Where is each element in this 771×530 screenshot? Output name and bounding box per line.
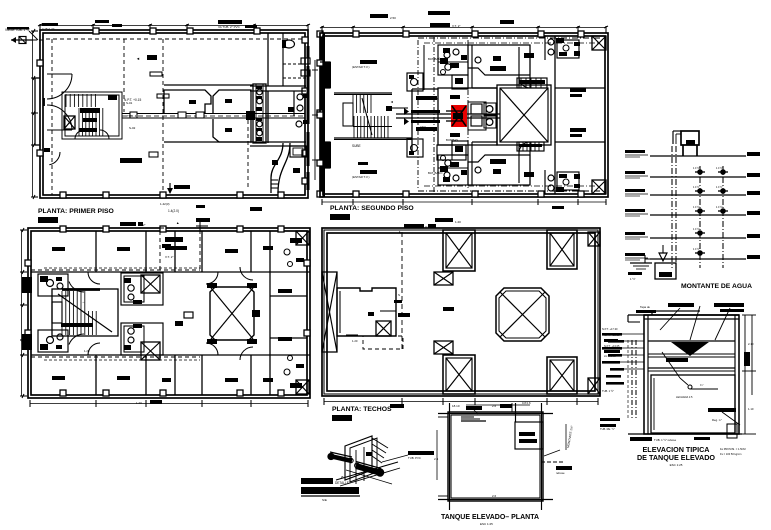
svg-text:B: B: [398, 300, 400, 304]
plan 4 vent xbox bottom-right: [547, 357, 577, 394]
plan 3 mid bath bottom block: [121, 323, 163, 355]
plan 1 right room labels: [288, 107, 294, 112]
svg-text:2.4: 2.4: [434, 457, 439, 461]
svg-text:◄: ◄: [390, 100, 393, 104]
plan 1 grid dashed verticals: [51, 39, 53, 195]
plan 3 top room partitions: [95, 231, 97, 272]
plan 4 small xbox lower: [434, 341, 453, 354]
plan 1 top dimension texts: [42, 23, 58, 26]
tank elevation inner leaders: [662, 352, 680, 378]
plan 4 top annotation: [404, 224, 424, 228]
svg-text:LECHADA 1:5: LECHADA 1:5: [676, 395, 693, 399]
svg-text:S-01: S-01: [126, 101, 133, 105]
svg-text:PLANTA: PRIMER PISO: PLANTA: PRIMER PISO: [38, 208, 114, 215]
plan 2 top-right wall and fixtures: [544, 36, 546, 60]
top-left valve symbol: [11, 39, 33, 41]
svg-text:0.25x1.20: 0.25x1.20: [42, 27, 55, 31]
svg-text:B: B: [436, 97, 438, 101]
plan 4 stair housing: [337, 288, 396, 336]
svg-text:1 1½": 1 1½": [716, 166, 723, 170]
plan 2 left wall black poché: [320, 33, 325, 197]
plan 2 corridor lines: [396, 113, 500, 115]
tank elevation water triangle: [671, 342, 709, 356]
plan 3 top room labels: [52, 247, 65, 251]
plan 1 stair block outline: [62, 92, 122, 139]
svg-text:DE TANQUE ELEVADO: DE TANQUE ELEVADO: [637, 453, 715, 462]
plan 2 corner xbox bottom-right: [592, 180, 606, 194]
plan 1 central rooms top wall: [164, 84, 253, 86]
svg-text:2.50: 2.50: [390, 16, 396, 20]
plan 2 bottom dim smudges: [435, 218, 453, 222]
svg-text:BOMBAS: BOMBAS: [446, 138, 458, 142]
plan 1 wall column markers: [93, 28, 99, 34]
svg-text:1.4(2.0): 1.4(2.0): [168, 209, 179, 213]
plan 3 left bath top cluster: [38, 274, 68, 296]
pump squares: [468, 102, 486, 130]
isometric caption line 1: [301, 478, 333, 484]
plan 1 misc annotations: [147, 55, 157, 60]
plan 1 bottom-right curved corridor wall: [271, 143, 283, 193]
tank plan inner room: [515, 422, 543, 449]
plan 3 bottom edge ticks: [29, 400, 31, 407]
plan 2 right rooms walls: [554, 36, 556, 194]
plan 3 right side bath smudges top: [290, 238, 302, 243]
plan 2 core dashed boundary: [417, 40, 419, 190]
plan 1 stair upper treads: [65, 94, 67, 107]
plan 4 stair housing dashed box: [363, 336, 403, 349]
plan 2 bottom-right wall and fixtures: [544, 170, 546, 194]
plan 2 long dashdot top and bottom: [418, 37, 600, 39]
svg-text:SUBE: SUBE: [352, 144, 361, 148]
plan 2 bottom rooms right of bath: [471, 142, 473, 185]
svg-text:1.10: 1.10: [748, 407, 754, 411]
plan 2 top-right bath: [557, 40, 579, 58]
isometric hatch top: [372, 438, 388, 448]
plan 3 stair door arcs: [69, 282, 84, 293]
svg-text:ESC 1:25: ESC 1:25: [480, 522, 493, 526]
plan 2 dash leader texts: [430, 23, 450, 27]
plan 1 top edge ticks: [39, 24, 41, 31]
plan1 right edge dimension line: [314, 60, 316, 180]
plan 3 bottom room partitions: [95, 355, 97, 395]
plan 4 small xbox upper: [434, 272, 453, 285]
plan 3 mid bath top xbox: [141, 275, 160, 293]
plan 3 left edge ticks: [20, 229, 27, 231]
svg-text:BAT. BAÑO: BAT. BAÑO: [428, 56, 443, 61]
plan 1 right wall sinks: [301, 58, 310, 64]
plan 2 stair lower flight: [353, 116, 355, 138]
plan 2 top rooms right of bath: [471, 45, 473, 88]
plan 4 corner xbox top-right: [588, 232, 600, 246]
plan 2 utility box left of bath bottom: [407, 139, 423, 157]
svg-text:1.20: 1.20: [352, 339, 358, 343]
tank elevation left labels: [602, 333, 622, 336]
plan 3 top rooms wall: [31, 271, 310, 273]
plan 2 stair upper flight: [352, 95, 354, 113]
svg-text:N.P.T. +17.30: N.P.T. +17.30: [602, 327, 618, 331]
riser floor left labels: [625, 150, 645, 153]
tank plan outer rect: [448, 412, 543, 501]
plan 2 elevator shaft xbox: [497, 85, 551, 145]
plan 3 right room labels: [278, 289, 292, 293]
plan 1 right zone partition walls: [267, 33, 269, 86]
plan 3 stair block: [52, 289, 118, 336]
plan 3 wall column markers: [60, 226, 66, 232]
plan 3 bottom annotation: [150, 400, 162, 404]
plan 3 stair top bold rail: [62, 288, 100, 291]
plan 2 pump room core walls: [438, 88, 497, 145]
plan 4 bottom edge ticks: [323, 398, 325, 405]
plan 3 patio xbox: [210, 287, 254, 340]
plan4 above smudge: [428, 224, 436, 228]
plan 1 top-right toilet: [284, 40, 295, 48]
plan 3 corner xbox top-right: [296, 231, 309, 245]
pump motor circles: [486, 106, 493, 113]
plan 4 outer parapet wall: [322, 228, 600, 396]
plan 2 top edge ticks: [321, 26, 323, 33]
plan 2 pipe leader dark dashes: [411, 110, 440, 113]
plan 3 right room door arcs: [240, 267, 253, 280]
plan 3 right side bath smudges bottom: [290, 383, 302, 388]
plan 4 vent xbox top-left: [443, 230, 475, 271]
svg-text:MONTANTE DE AGUA: MONTANTE DE AGUA: [681, 283, 752, 290]
plan 1 bottom-right closet: [290, 146, 306, 157]
plan 2 corner xbox top-right: [592, 36, 606, 50]
riser valves: [695, 171, 705, 173]
svg-text:1 1½": 1 1½": [693, 205, 700, 209]
svg-text:rebose: rebose: [556, 471, 565, 475]
plan 1 stair door arcs: [75, 130, 84, 139]
tank plan step hatch detail: [461, 420, 486, 422]
plan 2 outer wall: [320, 33, 608, 197]
riser inlet pipe: [645, 258, 672, 260]
plan 3 dashed duct zone top: [160, 228, 200, 272]
plan 4 central chamfered skylight: [496, 288, 549, 341]
riser vertical pipes dashdot: [671, 146, 673, 268]
svg-text:1 1½": 1 1½": [693, 185, 700, 189]
svg-text:Fe PROVISI. = 1.5CM: Fe PROVISI. = 1.5CM: [720, 447, 746, 451]
plan 1 corridor door squares: [178, 112, 186, 118]
plan3 above smudges: [138, 222, 143, 226]
svg-text:1.42(3): 1.42(3): [160, 202, 170, 206]
svg-text:18.10: 18.10: [452, 404, 460, 408]
isometric floor lines: [336, 462, 398, 480]
tank plan corner tick lines: [438, 413, 553, 415]
svg-text:1 1½": 1 1½": [716, 185, 723, 189]
svg-text:(ESTAR T.V.): (ESTAR T.V.): [352, 65, 369, 69]
svg-text:TUB. RE. ½": TUB. RE. ½": [600, 427, 615, 431]
plan 2 bottom bath cluster: [438, 155, 468, 185]
svg-text:2.10: 2.10: [748, 342, 754, 346]
plan 1 outer wall: [40, 30, 308, 198]
plan 4 vent xbox bottom-left: [443, 355, 475, 394]
plan 1 plumbing fixtures circles: [257, 89, 263, 95]
plan 2 room labels left: [360, 60, 377, 64]
svg-text:1.20: 1.20: [84, 349, 90, 353]
tank elevation top leaders: [660, 308, 680, 330]
svg-text:1 1½": 1 1½": [716, 205, 723, 209]
tank elevation left pipes dashdot: [631, 340, 633, 420]
plan 3 stair upper treads: [61, 291, 63, 311]
svg-text:BAT. BAÑO: BAT. BAÑO: [428, 170, 443, 175]
tank elevation lower box: [651, 375, 735, 433]
svg-text:DETALLE: DETALLE: [335, 481, 349, 485]
plan 3 mid bath top block: [121, 273, 163, 305]
plan 1 central room upper-left: [164, 90, 211, 113]
plan 1 central room upper-right: [213, 90, 251, 113]
plan 2 bottom-right bath: [557, 172, 579, 190]
svg-text:PLANTA: SEGUNDO PISO: PLANTA: SEGUNDO PISO: [330, 205, 414, 212]
plan 1 stair annotation NPT: [108, 95, 117, 100]
svg-text:1 ½": 1 ½": [630, 277, 636, 281]
svg-text:¾": ¾": [700, 383, 704, 387]
plan 4 corner xbox bottom-right: [588, 378, 600, 394]
svg-text:TUB. 1 ½" rebose: TUB. 1 ½" rebose: [654, 438, 677, 442]
isometric leader text right: [382, 455, 408, 462]
svg-text:ESC 1:25: ESC 1:25: [670, 463, 683, 467]
pump symbol over red: [452, 106, 466, 126]
plan 1 plumbing wall band: [253, 84, 266, 143]
svg-text:V.T. 2": V.T. 2": [165, 255, 173, 259]
tank elevation right niche: [708, 408, 736, 412]
plan 2 vent grill below shaft: [517, 142, 544, 151]
plan 4 center label dash: [443, 307, 454, 311]
tank elevation outer structure: [644, 315, 739, 434]
svg-text:TUB. 4": TUB. 4": [127, 114, 137, 118]
plan 3 stair diagonal rail: [58, 294, 112, 332]
plan 3 outer wall: [28, 228, 310, 398]
riser floor lines: [650, 155, 746, 157]
isometric wall panel: [345, 436, 372, 480]
plan 2 top vent grill: [517, 78, 547, 88]
svg-text:(ESTAR T.V.): (ESTAR T.V.): [352, 175, 369, 179]
riser branch risers: [699, 166, 701, 268]
riser cistern: [655, 263, 676, 279]
plan 2 rooms below core: [437, 145, 466, 160]
plan 2 top bath cluster: [438, 45, 468, 75]
plan 3 corner xbox bottom-right: [296, 380, 309, 394]
plan 1 stair dense core: [78, 108, 80, 136]
riser cistern funnel: [659, 253, 667, 261]
svg-text:1.20: 1.20: [136, 401, 142, 405]
plan2 above dimension smudges: [370, 14, 388, 18]
plan 3 stair lower treads: [61, 311, 63, 335]
plan 4 housing annotations: [380, 310, 396, 312]
isometric pipe lower: [356, 466, 381, 473]
plan 2 right room labels: [570, 88, 586, 92]
plan 3 interior door arcs: [88, 272, 100, 284]
plan 2 bottom edge ticks: [321, 199, 323, 205]
svg-text:→: →: [81, 299, 85, 304]
plan 2 wall column markers: [353, 31, 359, 37]
tank elevation bottom baseline: [628, 433, 742, 435]
tank elevation top-left slab step: [628, 314, 644, 316]
plan 3 top annotations: [120, 222, 136, 226]
svg-text:2.6: 2.6: [492, 494, 497, 498]
svg-text:TUB. PVC: TUB. PVC: [408, 456, 421, 460]
plan 1 top dashed service line: [46, 38, 305, 40]
plan 1 bottom-left door arc: [49, 152, 60, 165]
plan 1 bottom drain arrow: [169, 183, 171, 193]
plan 3 bottom room labels: [52, 376, 65, 380]
plan 4 stair housing inner xbox: [376, 321, 391, 336]
plan 1 central room lower: [213, 119, 251, 142]
isometric pipe upper: [330, 456, 352, 461]
svg-text:PLANTA: TECHOS: PLANTA: TECHOS: [332, 406, 392, 413]
plan 3 mid bath bottom xbox: [141, 342, 160, 360]
tank elevation right dimension lines: [744, 315, 746, 434]
plan 2 left wall recess top: [320, 62, 330, 88]
svg-text:◄: ◄: [136, 56, 140, 61]
svg-text:▲: ▲: [176, 221, 179, 225]
plan 1 right wall dark fill: [307, 46, 310, 58]
plan 3 upper mid-left dashed lines: [44, 267, 200, 269]
isometric caption line 2 underlined: [301, 487, 359, 494]
svg-text:1 1½": 1 1½": [693, 166, 700, 170]
svg-text:Fs = 100 50 kg/cm: Fs = 100 50 kg/cm: [720, 452, 741, 456]
plan 2 utility box left of bath top: [407, 73, 423, 91]
svg-text:S: S: [398, 293, 400, 297]
svg-text:TUB. 1 ½": TUB. 1 ½": [602, 389, 614, 393]
plan 4 vent xbox top-right: [547, 230, 577, 269]
plan 1 bottom-right stair marks: [271, 179, 278, 181]
tank elevation top slab: [644, 314, 739, 316]
pump room red highlight: [451, 105, 467, 127]
plan 1 left edge ticks: [31, 30, 38, 32]
svg-text:CTO.: CTO.: [420, 125, 427, 129]
svg-text:Reg. ¾": Reg. ¾": [712, 418, 722, 422]
plan 3 right rooms walls: [269, 231, 271, 395]
svg-text:2.6: 2.6: [492, 404, 497, 408]
plan 4 left xstrip: [322, 272, 337, 352]
svg-text:S/E: S/E: [322, 498, 327, 502]
plan 1 left entry recess and door arcs: [35, 77, 40, 79]
plan 4 bottom dim texts: [390, 404, 404, 408]
svg-text:1.20: 1.20: [455, 220, 461, 224]
plan 3 left bath bottom cluster: [38, 330, 68, 352]
svg-text:1 1½": 1 1½": [693, 227, 700, 231]
riser ground hatch: [630, 262, 652, 264]
plan 3 bottom rooms wall: [31, 354, 310, 356]
svg-text:TANQUE ELEVADO– PLANTA: TANQUE ELEVADO– PLANTA: [441, 514, 539, 521]
svg-text:S-02: S-02: [129, 126, 136, 130]
plan 1 corridor double line: [122, 113, 305, 115]
plan 2 stair walls: [334, 92, 392, 94]
plan 2 left wall recess bottom: [320, 142, 330, 168]
plan 4 grid dashed vertical: [401, 232, 403, 349]
plan 1 right zone inner wall: [282, 33, 284, 86]
riser top tank: [681, 131, 699, 145]
plan 3 center small annotations: [184, 312, 193, 318]
svg-text:Tapa de: Tapa de: [640, 305, 650, 309]
plan 2 stair break line: [362, 98, 372, 135]
plan 1 elevator xbox: [64, 116, 75, 129]
svg-text:1 1½": 1 1½": [693, 247, 700, 251]
plan 2 pipe leader texts: [416, 96, 437, 100]
tank plan dashed line and text: [541, 461, 563, 463]
svg-text:▲: ▲: [398, 230, 401, 234]
